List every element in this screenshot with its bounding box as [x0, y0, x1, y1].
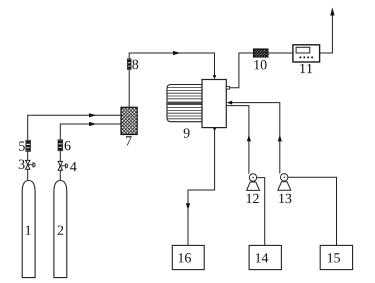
pump 13 — [278, 174, 291, 191]
cylinder 1 — [22, 181, 35, 278]
wire flowmeter8 to reactor9 top — [129, 53, 214, 79]
wire mixer7 to flowmeter8 — [128, 69, 130, 107]
label 10 — [254, 60, 266, 69]
label 7 — [126, 136, 132, 145]
filter 10 — [254, 49, 269, 57]
regulator 6 — [58, 140, 63, 151]
wire valve3 to regulator5 — [27, 151, 29, 160]
arrow on top line — [173, 51, 181, 55]
meter 11 — [293, 45, 320, 62]
wire pump12 suction from tank14 — [257, 178, 265, 246]
wire pump13 to reactor9 right (upper) — [232, 103, 280, 174]
arrow on upper feed line — [89, 113, 97, 117]
label 5 — [19, 141, 25, 150]
label 13 — [279, 194, 291, 203]
tank 14 — [249, 245, 281, 269]
wire cylinder1 to valve3 — [27, 169, 29, 181]
arrow up on pump13 line — [278, 135, 282, 142]
valve 3 — [26, 160, 36, 169]
wire pump12 to reactor9 right (lower) — [227, 106, 249, 174]
arrow below reactor9 bottom — [213, 128, 216, 131]
flowmeter 8 — [127, 59, 131, 69]
label 6 — [65, 141, 71, 150]
arrow up on pump12 line — [247, 135, 251, 142]
label 12 — [247, 194, 259, 203]
wire regulator5 to mixer7 (upper feed line) — [28, 115, 121, 140]
wire pump13 suction from tank15 — [288, 177, 337, 245]
arrow down on drain line — [186, 203, 190, 210]
label 8 — [132, 60, 138, 69]
label 14 — [256, 253, 268, 262]
wire regulator6 to mixer7 (lower feed line) — [60, 124, 121, 140]
wire cylinder2 to valve4 — [59, 170, 61, 181]
wire meter11 to vent — [320, 15, 333, 53]
arrow on lower feed line — [89, 122, 97, 126]
wire filter10 to meter11 — [268, 52, 293, 54]
vent arrow — [330, 8, 334, 16]
label 2 — [58, 226, 64, 235]
wire reactor9 bottom to tank16 — [188, 128, 215, 246]
wire valve4 to regulator6 — [59, 151, 61, 162]
tank 15 — [320, 245, 352, 269]
wire reactor nub to filter10 — [230, 53, 254, 88]
arrow into reactor9 right — [227, 101, 233, 105]
label 3 — [19, 160, 25, 169]
furnace of reactor 9 — [167, 85, 202, 122]
label 9 — [184, 128, 190, 137]
arrow into reactor9 top — [213, 75, 217, 79]
label 16 — [179, 253, 191, 262]
outlet nub on reactor right — [226, 86, 229, 89]
label 4 — [70, 162, 76, 171]
mixer 7 — [121, 107, 137, 134]
label 15 — [328, 253, 340, 262]
label 11 — [300, 64, 312, 73]
reactor 9 vessel — [202, 80, 226, 128]
regulator 5 — [26, 140, 31, 151]
tank 16 — [172, 245, 204, 269]
label 1 — [26, 226, 31, 235]
valve 4 — [58, 161, 68, 170]
pump 12 — [247, 174, 260, 191]
cylinder 2 — [54, 181, 67, 278]
